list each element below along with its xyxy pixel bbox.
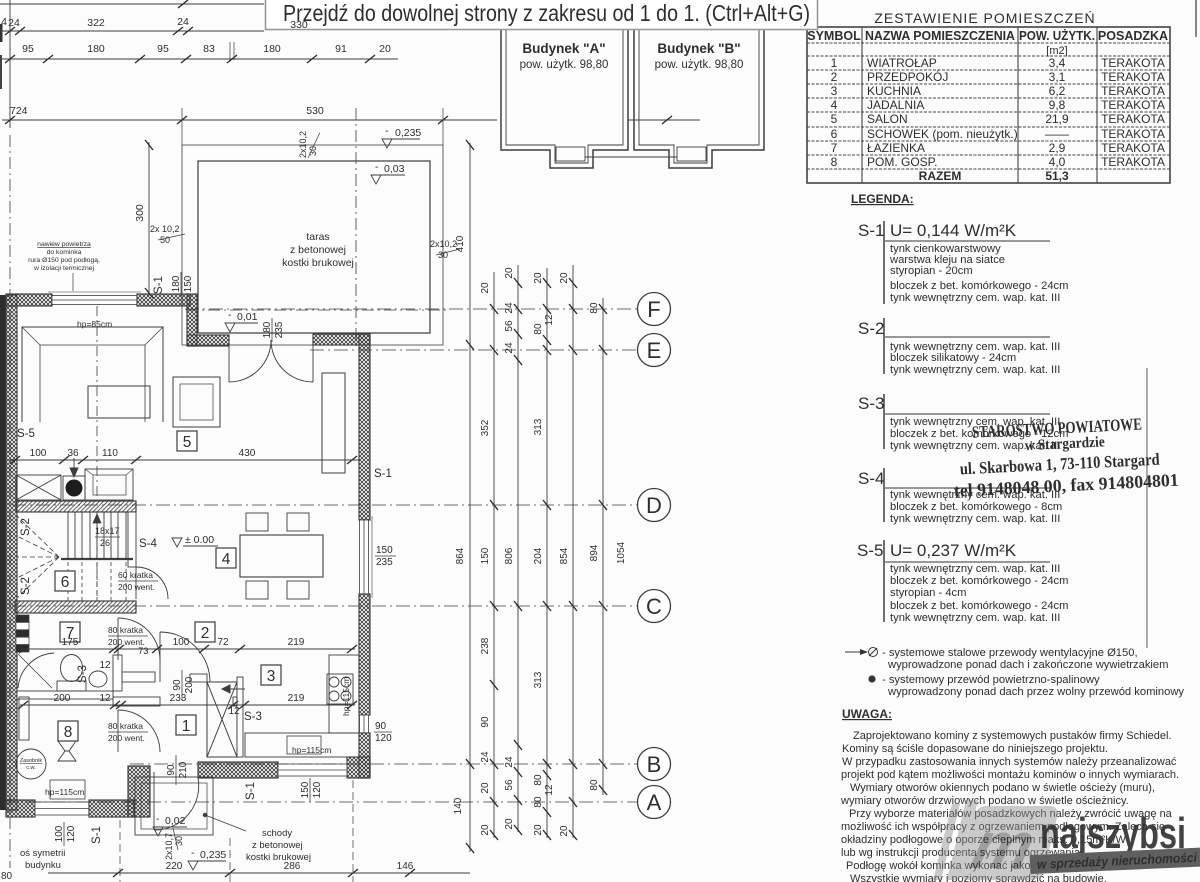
svg-text:TERAKOTA: TERAKOTA xyxy=(1101,70,1165,84)
svg-text:TERAKOTA: TERAKOTA xyxy=(1101,141,1165,155)
svg-text:120: 120 xyxy=(66,825,77,842)
budynek connector line xyxy=(585,156,677,158)
svg-text:180: 180 xyxy=(87,43,105,55)
svg-text:204: 204 xyxy=(533,547,544,564)
svg-text:ŁAZIENKA: ŁAZIENKA xyxy=(867,141,925,155)
schody leader dot xyxy=(203,813,207,817)
svg-text:233: 233 xyxy=(170,693,187,704)
grid leader C xyxy=(12,605,637,607)
svg-text:Budynek "A": Budynek "A" xyxy=(522,41,605,56)
svg-text:styropian - 20cm: styropian - 20cm xyxy=(890,265,973,277)
svg-text:TERAKOTA: TERAKOTA xyxy=(1101,127,1165,141)
kitchen window right xyxy=(360,715,369,733)
kominek sink unit xyxy=(16,475,61,500)
svg-text:3,4: 3,4 xyxy=(1049,56,1066,70)
room label 4 xyxy=(216,548,236,568)
svg-text:300: 300 xyxy=(134,204,146,222)
svg-text:56: 56 xyxy=(504,320,515,332)
internal wall S-2 under kitchen annex xyxy=(16,501,136,512)
svg-text:219: 219 xyxy=(288,637,305,648)
vent legend symbol 1 xyxy=(845,647,1168,671)
svg-text:200: 200 xyxy=(54,693,71,704)
entrance steps xyxy=(135,777,213,835)
svg-text:7: 7 xyxy=(831,141,838,155)
legend S-3 block xyxy=(858,394,1068,452)
svg-text:SALON: SALON xyxy=(867,112,908,126)
right chain line 3 xyxy=(517,265,519,832)
svg-text:wyprowadzone ponad dach i zako: wyprowadzone ponad dach i zakończone wyw… xyxy=(887,659,1168,671)
chimney side wall xyxy=(237,677,243,757)
svg-text:51,3: 51,3 xyxy=(1045,169,1069,183)
fraction 100/120 room8 window xyxy=(54,822,77,846)
page edge mark top right xyxy=(1195,0,1197,37)
salon top window xyxy=(48,292,141,305)
radiator room8 xyxy=(50,780,85,799)
svg-text:0,03: 0,03 xyxy=(384,163,405,175)
bottom extension dashed lines xyxy=(120,780,353,882)
svg-text:tynk wewnętrzny cem. wap. kat.: tynk wewnętrzny cem. wap. kat. III xyxy=(890,513,1060,525)
svg-text:S-3: S-3 xyxy=(77,665,89,683)
svg-text:80: 80 xyxy=(589,779,600,791)
svg-text:73: 73 xyxy=(138,646,149,657)
right outer wall middle xyxy=(359,594,370,715)
bathroom wall vertical xyxy=(113,655,122,691)
svg-text:styropian - 4cm: styropian - 4cm xyxy=(890,587,966,599)
svg-text:72: 72 xyxy=(217,637,229,648)
dim row salon y460 xyxy=(10,459,359,461)
svg-text:W przypadku zastosowania innyc: W przypadku zastosowania innych systemów… xyxy=(842,756,1177,768)
bathroom T wall xyxy=(122,672,155,682)
kitchen bottom wall xyxy=(198,762,278,778)
svg-text:5: 5 xyxy=(831,112,838,126)
UWAGA paragraph xyxy=(840,730,1179,882)
svg-text:Wymiary otworów okiennych poda: Wymiary otworów okiennych podano w świet… xyxy=(850,782,1155,794)
svg-text:Kominy są ściśle dopasowane do: Kominy są ściśle dopasowane do niniejsze… xyxy=(842,743,1108,755)
svg-text:- systemowy przewód powietrzno: - systemowy przewód powietrzno-spalinowy xyxy=(882,674,1100,686)
nawiew note xyxy=(28,241,100,272)
grid leader F xyxy=(185,308,637,310)
svg-text:budynku: budynku xyxy=(25,860,61,871)
svg-text:S-2: S-2 xyxy=(20,577,32,595)
svg-text:NAZWA POMIESZCZENIA: NAZWA POMIESZCZENIA xyxy=(865,29,1015,43)
svg-text:2: 2 xyxy=(831,70,838,84)
step wall horizontal xyxy=(187,335,229,346)
sink xyxy=(89,671,107,687)
vent note room6 xyxy=(118,570,158,592)
svg-text:80: 80 xyxy=(589,302,600,314)
stair thin wall S-4 xyxy=(128,512,136,567)
svg-text:100: 100 xyxy=(173,637,190,648)
level marker -0,01 xyxy=(225,309,258,332)
svg-text:D: D xyxy=(646,493,662,518)
svg-text:60 kratka: 60 kratka xyxy=(118,570,153,580)
svg-text:3: 3 xyxy=(267,668,276,685)
svg-text:80: 80 xyxy=(533,323,544,335)
svg-text:235: 235 xyxy=(376,557,393,568)
svg-text:0,235: 0,235 xyxy=(395,127,421,139)
svg-text:864: 864 xyxy=(455,547,466,564)
kitchen bottom window xyxy=(278,764,347,776)
room8 bottom window xyxy=(35,802,89,815)
grid bubble E xyxy=(638,334,671,367)
svg-text:2: 2 xyxy=(201,625,210,642)
svg-text:C: C xyxy=(646,594,662,619)
right chain line 5 xyxy=(572,265,574,838)
stairs walk line xyxy=(93,514,101,596)
kitchen short wall xyxy=(190,674,207,682)
svg-text:12: 12 xyxy=(544,784,555,796)
svg-text:20: 20 xyxy=(480,282,491,294)
dining window right xyxy=(360,516,373,598)
svg-text:20: 20 xyxy=(504,267,515,279)
svg-text:3,1: 3,1 xyxy=(1049,70,1066,84)
svg-text:24: 24 xyxy=(480,751,491,763)
door room8 xyxy=(118,710,160,752)
wall between 7 and 8 xyxy=(17,691,113,699)
svg-text:0,235: 0,235 xyxy=(200,849,226,861)
grid leader A xyxy=(3,801,637,803)
svg-text:do kominka: do kominka xyxy=(47,249,82,256)
chimney block xyxy=(207,682,237,757)
svg-text:313: 313 xyxy=(533,418,544,435)
level marker -0,235 terrace xyxy=(382,125,421,148)
terrace step label 2x10,2/30 right xyxy=(430,239,460,260)
budynek B outline xyxy=(634,22,764,168)
bottom dimension line xyxy=(48,872,470,874)
fraction 180/235 terrace door xyxy=(262,318,285,342)
svg-text:352: 352 xyxy=(480,419,491,436)
sofa xyxy=(22,327,163,422)
svg-text:100: 100 xyxy=(54,825,65,842)
svg-text:kostki brukowej: kostki brukowej xyxy=(246,852,311,863)
door room1 xyxy=(160,632,210,682)
svg-text:4: 4 xyxy=(831,98,838,112)
grid leader E xyxy=(310,349,637,351)
svg-text:100: 100 xyxy=(30,448,47,459)
svg-text:Budynek "B": Budynek "B" xyxy=(657,41,740,56)
centerline terrace horizontal xyxy=(186,309,446,311)
pdf viewer tooltip box xyxy=(266,0,818,30)
right outer wall upper xyxy=(359,334,370,520)
terrace french door xyxy=(229,340,313,382)
dim 300 left of terrace xyxy=(148,142,150,296)
watermark logo tile m xyxy=(933,800,1060,882)
stairs label 18x17/26 xyxy=(95,526,120,548)
svg-text:kostki brukowej: kostki brukowej xyxy=(282,257,354,269)
bottom right corner wall xyxy=(347,757,370,778)
door room6 xyxy=(136,567,168,599)
svg-text:S-1: S-1 xyxy=(153,276,165,294)
svg-text:SCHOWEK (pom. nieużytk.): SCHOWEK (pom. nieużytk.) xyxy=(867,127,1018,141)
svg-text:200 went.: 200 went. xyxy=(118,582,155,592)
symmetry axis centerline xyxy=(9,135,11,868)
svg-text:WIATROŁAP: WIATROŁAP xyxy=(867,56,937,70)
svg-text:95: 95 xyxy=(157,43,169,55)
2x10,7/30 label entrance xyxy=(164,828,184,860)
svg-text:UWAGA:: UWAGA: xyxy=(842,707,892,721)
right chain line 4 xyxy=(546,268,548,838)
fraction 150/120 bottom window xyxy=(300,778,323,802)
stairs landing line xyxy=(61,558,133,560)
svg-text:6: 6 xyxy=(831,127,838,141)
svg-text:146: 146 xyxy=(397,861,414,872)
svg-text:150: 150 xyxy=(183,275,194,292)
centerline terrace vertical xyxy=(355,108,357,348)
fraction 150/235 dining window xyxy=(375,545,396,568)
table data rows xyxy=(831,56,1165,183)
svg-text:8: 8 xyxy=(831,155,838,169)
svg-text:120: 120 xyxy=(312,781,323,798)
svg-text:bloczek z bet. komórkowego - 2: bloczek z bet. komórkowego - 24cm xyxy=(890,600,1068,612)
svg-text:20: 20 xyxy=(559,825,570,837)
svg-text:S-2: S-2 xyxy=(858,319,884,338)
stairs risers upper xyxy=(68,512,126,558)
svg-text:1: 1 xyxy=(831,56,838,70)
svg-text:18x17: 18x17 xyxy=(95,526,120,536)
room label 7 xyxy=(60,622,80,642)
svg-text:hp=115cm: hp=115cm xyxy=(45,787,84,797)
svg-text:TERAKOTA: TERAKOTA xyxy=(1101,56,1165,70)
watermark banner w sprzedazy nieruchomosci xyxy=(1030,847,1200,874)
grid bubble A xyxy=(638,786,671,819)
vent legend symbol 2 xyxy=(868,674,1184,698)
svg-text:nawiew powietrza: nawiew powietrza xyxy=(37,241,91,248)
svg-text:2x10,2: 2x10,2 xyxy=(430,239,457,249)
svg-text:POSADZKA: POSADZKA xyxy=(1098,29,1168,43)
svg-text:JADALNIA: JADALNIA xyxy=(867,98,924,112)
svg-text:854: 854 xyxy=(559,547,570,564)
svg-text:A: A xyxy=(647,790,662,815)
armchair xyxy=(173,377,220,427)
chain ticks xyxy=(466,140,607,853)
svg-text:150: 150 xyxy=(376,545,393,556)
grid leader B xyxy=(130,763,637,765)
grid bubble C xyxy=(638,590,671,623)
svg-text:806: 806 xyxy=(504,547,515,564)
entrance door xyxy=(154,772,199,830)
svg-text:-: - xyxy=(385,125,389,137)
svg-text:-: - xyxy=(375,161,379,173)
bottom wall room8 left xyxy=(6,800,35,817)
svg-text:U= 0,237 W/m²K: U= 0,237 W/m²K xyxy=(890,541,1017,560)
svg-text:E: E xyxy=(647,338,662,363)
svg-text:TERAKOTA: TERAKOTA xyxy=(1101,155,1165,169)
svg-text:bloczek z bet. komórkowego - 8: bloczek z bet. komórkowego - 8cm xyxy=(890,501,1062,513)
svg-text:F: F xyxy=(647,297,660,322)
kominek stove circle xyxy=(63,476,85,500)
top dimension line row2 322/24/330 xyxy=(0,30,264,32)
svg-text:z betonowej: z betonowej xyxy=(290,244,346,256)
svg-text:ZESTAWIENIE POMIESZCZEŃ: ZESTAWIENIE POMIESZCZEŃ xyxy=(874,10,1095,26)
svg-text:30: 30 xyxy=(438,250,448,260)
washing machine xyxy=(19,697,29,740)
room label 1 xyxy=(176,715,196,735)
tv cabinet xyxy=(322,373,345,473)
kitchen sink bottom xyxy=(287,736,321,754)
kitchen counter bottom xyxy=(245,733,359,757)
svg-text:724: 724 xyxy=(10,105,28,117)
coffee table xyxy=(88,386,150,418)
grid leader D xyxy=(12,504,637,506)
svg-text:oś symetrii: oś symetrii xyxy=(20,848,65,859)
terrace door wall segment xyxy=(313,334,370,345)
svg-text:bloczek silikatowy - 24cm: bloczek silikatowy - 24cm xyxy=(890,352,1016,364)
stool room8 xyxy=(58,741,76,761)
room table frame xyxy=(807,27,1170,183)
fraction 180/150 top window xyxy=(171,272,194,296)
level marker -0,235 bottom xyxy=(188,847,226,870)
svg-text:S-3: S-3 xyxy=(244,711,262,723)
fraction 90/120 kitchen window xyxy=(374,721,392,744)
budynek A outline xyxy=(501,22,628,168)
svg-text:Zaprojektowano kominy z system: Zaprojektowano kominy z systemowych pust… xyxy=(853,730,1172,742)
svg-text:S-1: S-1 xyxy=(91,826,103,844)
vent shaft checker xyxy=(16,615,29,652)
svg-text:TERAKOTA: TERAKOTA xyxy=(1101,84,1165,98)
svg-text:wyprowadzony ponad dach przez: wyprowadzony ponad dach przez wolny prze… xyxy=(887,686,1184,698)
svg-text:200 went.: 200 went. xyxy=(108,733,145,743)
svg-text:50: 50 xyxy=(160,235,170,245)
svg-text:175: 175 xyxy=(62,637,79,648)
stairs risers lower dashed xyxy=(68,562,126,601)
vent note room8 xyxy=(108,721,148,743)
grid bubble F xyxy=(638,293,671,326)
svg-text:1: 1 xyxy=(182,718,191,735)
svg-text:LEGENDA:: LEGENDA: xyxy=(851,192,914,206)
fraction 90/200 hall xyxy=(172,670,195,700)
svg-text:S-4: S-4 xyxy=(858,469,884,488)
svg-text:S-2: S-2 xyxy=(20,518,32,536)
svg-text:410: 410 xyxy=(455,235,466,252)
svg-text:hp=115cm: hp=115cm xyxy=(292,745,331,755)
terrace step label 2x10,2/30 top xyxy=(298,131,320,158)
svg-text:pow. użytk. 98,80: pow. użytk. 98,80 xyxy=(655,59,744,71)
svg-text:80: 80 xyxy=(533,774,544,786)
svg-text:RAZEM: RAZEM xyxy=(919,169,962,183)
svg-text:238: 238 xyxy=(480,637,491,654)
svg-text:w izolacji termicznej: w izolacji termicznej xyxy=(33,265,95,272)
svg-text:S-5: S-5 xyxy=(857,541,883,560)
svg-text:56: 56 xyxy=(504,779,515,791)
salon top wall left segment xyxy=(6,294,52,306)
wall between 2 and 1 right part xyxy=(233,697,243,706)
svg-text:90: 90 xyxy=(480,716,491,728)
svg-text:tynk wewnętrzny cem. wap. kat.: tynk wewnętrzny cem. wap. kat. III xyxy=(890,292,1060,304)
entrance side wall xyxy=(128,766,150,817)
svg-text:S-1: S-1 xyxy=(374,468,392,480)
chain labels rotated xyxy=(453,235,627,836)
svg-text:180: 180 xyxy=(263,43,281,55)
svg-text:wymiary otworów drzwiowych pod: wymiary otworów drzwiowych podano w świe… xyxy=(840,795,1129,807)
terrace step label 2x10,2/50 left xyxy=(150,224,185,245)
svg-text:4: 4 xyxy=(1,16,7,28)
legend S-5 block xyxy=(857,540,1068,624)
svg-text:taras: taras xyxy=(306,231,329,243)
svg-text:430: 430 xyxy=(239,448,256,459)
stairs winder lines xyxy=(17,516,59,598)
terrace slab xyxy=(198,161,430,333)
legend S-1 block xyxy=(858,221,1068,304)
left party wall xyxy=(6,295,17,810)
svg-text:rura Ø150 pod podłogą,: rura Ø150 pod podłogą, xyxy=(28,257,100,264)
svg-text:12: 12 xyxy=(99,693,111,704)
svg-text:——: —— xyxy=(1045,127,1069,141)
grid bubble D xyxy=(638,489,671,522)
svg-text:150: 150 xyxy=(480,547,491,564)
svg-text:KUCHNIA: KUCHNIA xyxy=(867,84,921,98)
right chain line 6 xyxy=(602,298,604,795)
svg-text:hp=115cm: hp=115cm xyxy=(341,677,351,716)
svg-text:schody: schody xyxy=(262,828,292,839)
svg-text:24: 24 xyxy=(504,342,515,354)
svg-text:2,9: 2,9 xyxy=(1049,141,1066,155)
internal wall S-2 above bathroom xyxy=(15,601,136,613)
svg-text:219: 219 xyxy=(288,693,305,704)
kitchen stove xyxy=(327,674,353,704)
kominek hearth xyxy=(85,469,133,500)
svg-text:8: 8 xyxy=(64,724,73,741)
step wall vertical at terrace xyxy=(187,294,197,346)
svg-text:9,8: 9,8 xyxy=(1049,98,1066,112)
svg-text:tynk wewnętrzny cem. wap. kat.: tynk wewnętrzny cem. wap. kat. III xyxy=(890,563,1060,575)
svg-text:2x 10,2: 2x 10,2 xyxy=(150,224,180,234)
svg-text:projekt pod kątem możliwości m: projekt pod kątem możliwości montażu kom… xyxy=(841,769,1179,781)
right chain line 2 xyxy=(493,272,495,838)
svg-text:12: 12 xyxy=(228,706,240,717)
toilet xyxy=(57,655,86,692)
svg-text:2x10,7: 2x10,7 xyxy=(164,833,174,860)
svg-text:4: 4 xyxy=(222,551,231,568)
dining chairs xyxy=(246,513,309,599)
legend S-2 block xyxy=(858,318,1060,376)
svg-text:322: 322 xyxy=(87,17,105,29)
svg-text:80: 80 xyxy=(533,796,544,808)
svg-text:TERAKOTA: TERAKOTA xyxy=(1101,98,1165,112)
svg-text:140: 140 xyxy=(453,797,464,814)
svg-text:3: 3 xyxy=(831,84,838,98)
fold line right xyxy=(1146,368,1148,648)
svg-text:0,01: 0,01 xyxy=(237,311,258,323)
top dimension line row3 95/180/95/83/180/91/20 xyxy=(0,58,398,60)
svg-text:bloczek z bet. komórkowego - 2: bloczek z bet. komórkowego - 24cm xyxy=(890,575,1068,587)
svg-text:c.w.: c.w. xyxy=(26,765,36,771)
nawiew arrow xyxy=(70,458,78,477)
room label 6 xyxy=(55,571,75,591)
svg-text:24: 24 xyxy=(8,17,20,29)
symmetry axis band xyxy=(0,295,6,810)
svg-text:24: 24 xyxy=(504,302,515,314)
svg-text:S-3: S-3 xyxy=(858,394,884,413)
svg-text:hp=85cm: hp=85cm xyxy=(77,319,112,329)
bottom wall room8 right xyxy=(89,800,134,817)
svg-text:180: 180 xyxy=(171,275,182,292)
svg-text:S-4: S-4 xyxy=(139,538,158,550)
svg-text:- systemowe stalowe przewody w: - systemowe stalowe przewody wentylacyjn… xyxy=(882,647,1138,659)
level marker -0,03 terrace xyxy=(371,161,405,184)
scan edge marks left xyxy=(0,24,3,42)
svg-text:bloczek z bet. komórkowego - 2: bloczek z bet. komórkowego - 24cm xyxy=(890,280,1068,292)
svg-text:21,9: 21,9 xyxy=(1045,112,1069,126)
svg-text:S-1: S-1 xyxy=(245,782,257,800)
bathroom door xyxy=(118,618,160,660)
svg-text:POM. GOSP.: POM. GOSP. xyxy=(867,155,937,169)
svg-text:12: 12 xyxy=(99,660,111,671)
svg-text:-: - xyxy=(228,309,232,321)
svg-text:6: 6 xyxy=(61,574,70,591)
svg-text:120: 120 xyxy=(375,733,392,744)
svg-text:83: 83 xyxy=(203,43,215,55)
svg-text:90: 90 xyxy=(166,764,177,776)
